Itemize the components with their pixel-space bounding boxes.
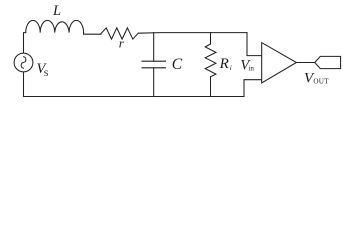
svg-text:C: C (172, 56, 183, 73)
svg-text:r: r (119, 36, 125, 51)
AC source VS circle (14, 53, 33, 72)
wire: op-amp output (296, 62, 314, 64)
wire: bottom rail (24, 96, 245, 98)
wire: top rail riser to op-amp + input (247, 33, 262, 56)
wire: resistor Ri top stem (210, 33, 212, 44)
svg-text:OUT: OUT (313, 78, 329, 86)
wire: capacitor bottom stem (153, 68, 155, 97)
svg-text:S: S (44, 68, 49, 78)
wire: resistor Ri bottom stem (210, 77, 212, 97)
capacitor C plates (142, 61, 166, 68)
output terminal flag (315, 56, 341, 68)
svg-text:in: in (248, 65, 254, 73)
resistor r (101, 28, 138, 39)
op-amp U1 triangle (262, 43, 297, 83)
wire: source bottom riser (23, 72, 25, 97)
svg-text:R: R (219, 56, 229, 72)
inductor L (26, 20, 84, 32)
wire: top rail from r to op-amp riser (138, 32, 247, 35)
wire: inductor to resistor r (84, 33, 101, 35)
svg-text:L: L (52, 3, 61, 19)
wire: capacitor top stem (153, 33, 155, 62)
wire: bottom rail riser to op-amp - input (244, 80, 262, 97)
wire: source top riser to top rail corner (24, 33, 26, 54)
AC source sine symbol (21, 57, 26, 68)
resistor Ri (205, 44, 216, 77)
svg-text:i: i (230, 64, 232, 72)
